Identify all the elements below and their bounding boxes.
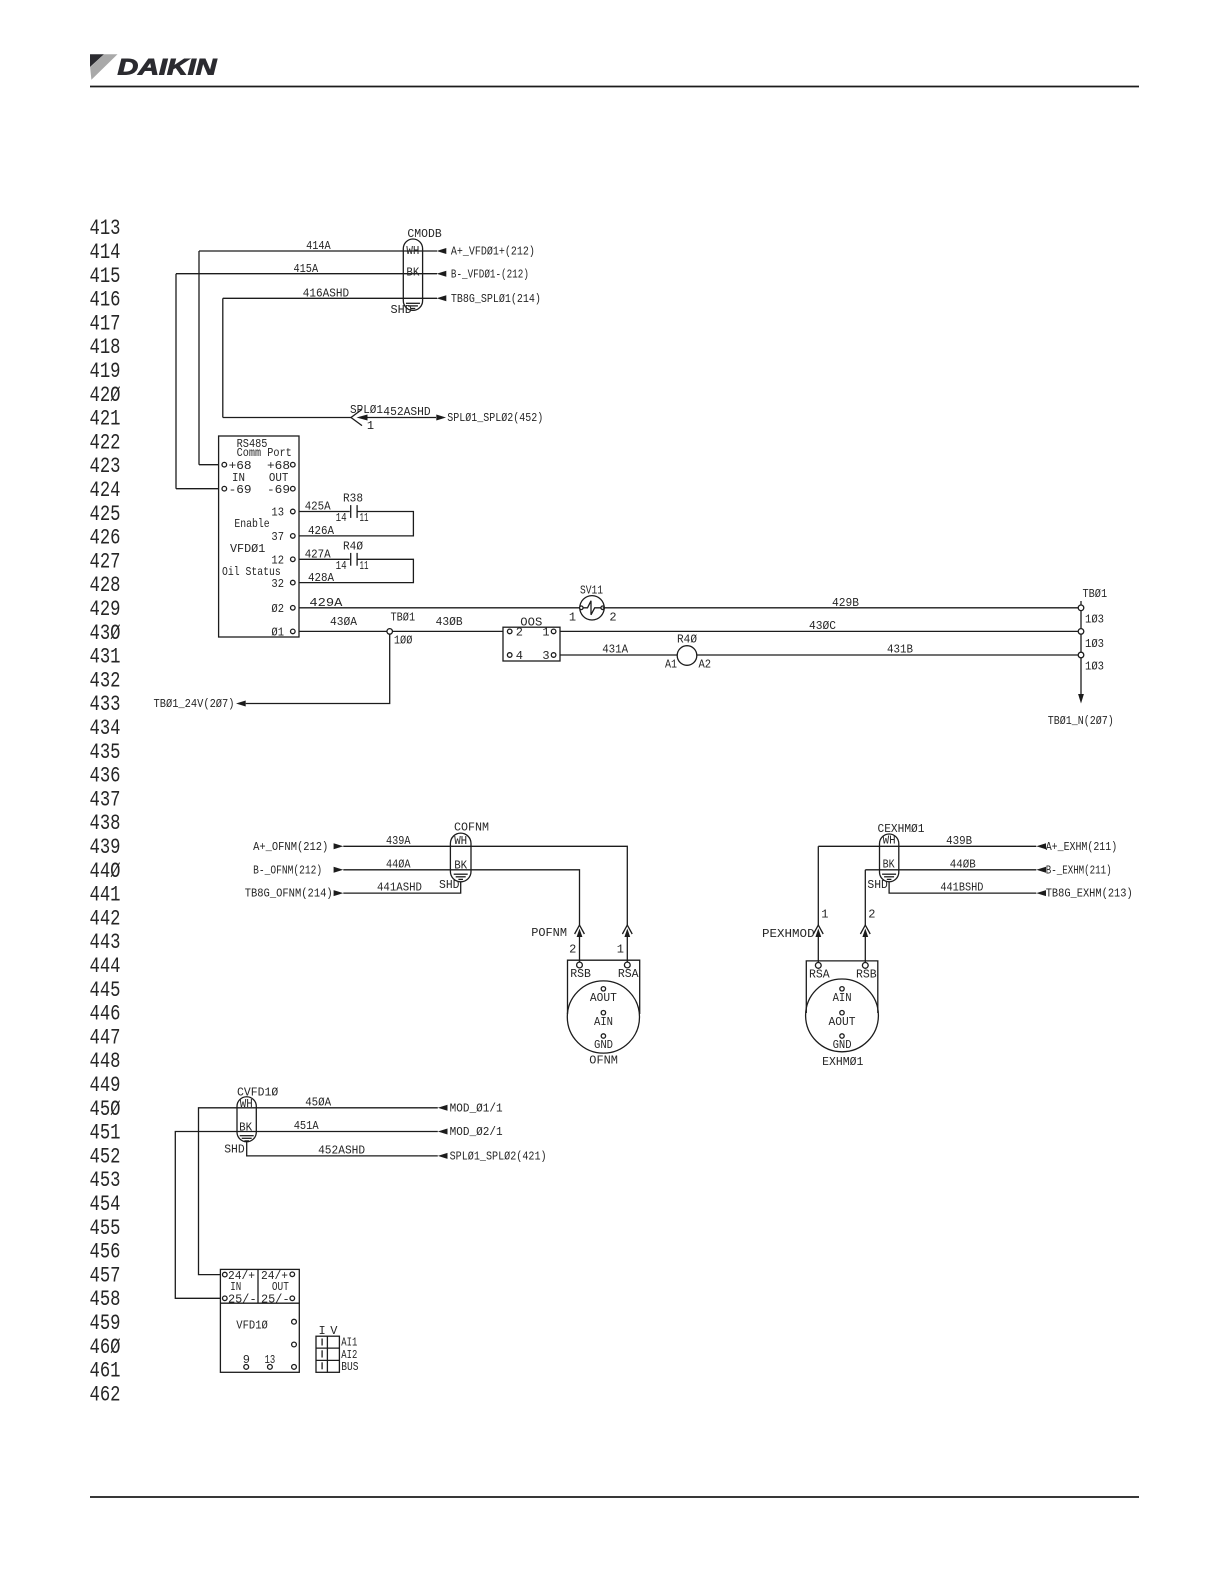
- svg-text:43ØC: 43ØC: [809, 619, 836, 633]
- svg-text:414A: 414A: [306, 239, 331, 253]
- svg-text:423: 423: [90, 454, 121, 479]
- contact R38: [351, 505, 357, 518]
- terminal -69 OUT: [291, 486, 296, 491]
- footer rule: [90, 1496, 1139, 1498]
- svg-text:1: 1: [367, 419, 374, 433]
- svg-text:422: 422: [90, 430, 121, 455]
- svg-text:454: 454: [90, 1192, 121, 1217]
- svg-text:441ASHD: 441ASHD: [377, 881, 422, 895]
- svg-text:441BSHD: 441BSHD: [940, 881, 983, 895]
- wire 431B: [697, 654, 1081, 656]
- terminal AOUT OFNM: [601, 987, 605, 991]
- svg-text:WH: WH: [454, 834, 467, 848]
- terminal 13 VFD01: [291, 509, 296, 514]
- connector receptacle SPL01: [351, 409, 362, 425]
- wire 441BSHD: [889, 882, 1036, 894]
- connector plug SPL01: [357, 415, 368, 421]
- terminal TB01 103b: [1078, 629, 1084, 635]
- svg-text:VFDØ1: VFDØ1: [230, 542, 265, 556]
- svg-text:458: 458: [90, 1287, 121, 1312]
- wire 451A: [175, 1132, 438, 1299]
- svg-text:46Ø: 46Ø: [90, 1335, 121, 1360]
- jumper table I/V: [316, 1336, 339, 1372]
- wire 431A: [560, 654, 677, 656]
- svg-text:SPLØ1_SPLØ2(421): SPLØ1_SPLØ2(421): [450, 1150, 547, 1164]
- svg-text:1: 1: [542, 626, 549, 640]
- wire 452ASHD right: [368, 417, 437, 419]
- svg-text:425A: 425A: [305, 500, 332, 514]
- svg-text:25/-: 25/-: [228, 1293, 257, 1307]
- svg-text:439: 439: [90, 835, 121, 860]
- svg-text:SHD: SHD: [224, 1143, 245, 1157]
- svg-text:-69: -69: [267, 483, 290, 497]
- svg-text:WH: WH: [406, 244, 419, 258]
- svg-text:A+_OFNM(212): A+_OFNM(212): [253, 840, 328, 854]
- svg-text:A1: A1: [665, 658, 677, 672]
- wire 440A: [343, 870, 579, 925]
- terminal VFD10 r1: [292, 1319, 297, 1324]
- terminal RSB OFNM: [577, 962, 583, 968]
- terminal 9 VFD10: [244, 1365, 249, 1370]
- svg-text:427: 427: [90, 549, 121, 574]
- wire 440B: [865, 869, 1036, 871]
- svg-text:1: 1: [569, 611, 576, 625]
- terminal OOS 3: [551, 653, 556, 658]
- svg-text:OOS: OOS: [520, 615, 542, 629]
- terminal +68 OUT: [291, 462, 296, 467]
- connector POFNM pin 2: [575, 925, 585, 937]
- device OFNM circle: [567, 981, 639, 1053]
- terminal 25/- OUT: [290, 1296, 295, 1301]
- svg-text:441: 441: [90, 883, 121, 908]
- shield CVFD10: [240, 1136, 254, 1141]
- svg-text:44ØA: 44ØA: [386, 857, 411, 871]
- svg-text:1ØØ: 1ØØ: [394, 633, 413, 647]
- arrow A+_EXHM: [1036, 843, 1046, 849]
- svg-text:2: 2: [609, 611, 616, 625]
- wire -69 in: [176, 488, 219, 490]
- svg-text:4: 4: [516, 649, 523, 663]
- svg-text:Ø2: Ø2: [271, 602, 284, 616]
- svg-text:EXHMØ1: EXHMØ1: [822, 1055, 863, 1069]
- svg-text:444: 444: [90, 954, 121, 979]
- svg-text:451A: 451A: [294, 1119, 320, 1133]
- terminal 01 VFD01: [291, 629, 296, 634]
- svg-text:428A: 428A: [308, 571, 335, 585]
- arrow TB8G_SPL01: [437, 295, 447, 301]
- svg-text:453: 453: [90, 1168, 121, 1193]
- svg-text:45Ø: 45Ø: [90, 1097, 121, 1122]
- svg-text:AIN: AIN: [833, 991, 852, 1005]
- VFD10 divider vertical: [257, 1269, 259, 1303]
- cable CMODB: [403, 239, 422, 310]
- svg-text:A2: A2: [699, 658, 712, 672]
- wire 426A loop: [299, 512, 413, 536]
- wire 415A: [176, 273, 437, 275]
- solenoid valve SV11: [580, 596, 605, 620]
- svg-text:R4Ø: R4Ø: [677, 633, 697, 647]
- terminal GND EXHM01: [840, 1034, 844, 1038]
- svg-text:44Ø: 44Ø: [90, 859, 121, 884]
- svg-text:2: 2: [569, 943, 576, 957]
- svg-text:RSA: RSA: [618, 967, 639, 981]
- svg-text:Ø1: Ø1: [271, 626, 284, 640]
- wire 429A: [299, 607, 581, 609]
- terminal 37 VFD01: [291, 534, 296, 539]
- wire PEXHMOD 1 drop: [817, 937, 819, 963]
- terminal AIN EXHM01: [840, 987, 844, 991]
- cable COFNM: [450, 833, 471, 882]
- terminal OOS 4: [507, 653, 512, 658]
- svg-text:-69: -69: [229, 483, 252, 497]
- svg-text:446: 446: [90, 1002, 121, 1027]
- wire feeder 414A vertical: [198, 251, 200, 465]
- svg-text:SHD: SHD: [439, 878, 460, 892]
- terminal 25/- IN: [223, 1296, 228, 1301]
- svg-text:45ØA: 45ØA: [305, 1095, 332, 1109]
- connector PEXHMOD pin 2: [860, 925, 870, 937]
- svg-text:SPLØ1: SPLØ1: [350, 403, 383, 417]
- arrow TB8G_EXHM: [1036, 890, 1046, 896]
- device EXHM01 circle: [806, 979, 879, 1052]
- svg-text:414: 414: [90, 240, 121, 265]
- svg-text:416: 416: [90, 288, 121, 313]
- svg-text:431A: 431A: [602, 643, 629, 657]
- terminal TB01 103a: [1078, 605, 1084, 611]
- wire feeder 415A vertical: [175, 274, 177, 489]
- svg-text:SHD: SHD: [867, 878, 888, 892]
- svg-text:WH: WH: [240, 1097, 253, 1111]
- svg-text:424: 424: [90, 478, 121, 503]
- svg-text:432: 432: [90, 668, 121, 693]
- arrow TB8G_OFNM: [334, 890, 344, 896]
- svg-text:A+_VFDØ1+(212): A+_VFDØ1+(212): [451, 245, 535, 259]
- terminal OOS 2: [507, 629, 512, 634]
- wire TB01 N drop: [1080, 658, 1082, 695]
- terminal VFD10 r3: [292, 1365, 297, 1370]
- terminal 02 VFD01: [291, 606, 296, 611]
- switch OOS box: [503, 627, 560, 661]
- jumper AI2 mark: [321, 1350, 323, 1357]
- svg-text:13: 13: [271, 506, 284, 520]
- jumper AI1 mark: [321, 1339, 323, 1346]
- arrow SPL01_SPL02(421): [438, 1153, 448, 1159]
- svg-text:433: 433: [90, 692, 121, 717]
- contact R40: [351, 553, 357, 566]
- svg-text:429: 429: [90, 597, 121, 622]
- device VFD10 box: [220, 1269, 299, 1372]
- svg-text:44ØB: 44ØB: [950, 857, 976, 871]
- wire 439A: [343, 846, 627, 925]
- relay coil R40: [677, 646, 697, 666]
- svg-text:447: 447: [90, 1025, 121, 1050]
- svg-text:AOUT: AOUT: [590, 991, 617, 1005]
- svg-text:WH: WH: [883, 834, 896, 848]
- svg-text:I: I: [318, 1324, 325, 1338]
- svg-text:429A: 429A: [309, 596, 343, 610]
- svg-text:SV11: SV11: [580, 584, 603, 598]
- svg-text:A+_EXHM(211): A+_EXHM(211): [1046, 840, 1118, 854]
- svg-text:421: 421: [90, 407, 121, 432]
- svg-text:42Ø: 42Ø: [90, 383, 121, 408]
- terminal AIN OFNM: [601, 1011, 605, 1015]
- svg-text:SPLØ1_SPLØ2(452): SPLØ1_SPLØ2(452): [447, 411, 543, 425]
- svg-text:439A: 439A: [386, 834, 411, 848]
- svg-text:3: 3: [542, 649, 549, 663]
- svg-text:415: 415: [90, 264, 121, 289]
- svg-text:B-_EXHM(211): B-_EXHM(211): [1046, 863, 1112, 877]
- terminal 24/+ IN: [223, 1272, 228, 1277]
- line number column 413-462: [90, 216, 121, 1407]
- svg-text:25/-: 25/-: [261, 1293, 290, 1307]
- svg-text:1Ø3: 1Ø3: [1085, 637, 1104, 651]
- svg-text:417: 417: [90, 311, 121, 336]
- wire 416ASHD: [223, 297, 437, 299]
- svg-text:B-_VFDØ1-(212): B-_VFDØ1-(212): [451, 267, 529, 281]
- svg-text:435: 435: [90, 740, 121, 765]
- svg-text:2: 2: [516, 626, 523, 640]
- terminal RSA EXHM01: [815, 963, 821, 969]
- svg-text:452: 452: [90, 1144, 121, 1169]
- wire TB01 24V drop: [246, 634, 390, 703]
- wire 439B drop: [817, 846, 819, 925]
- terminal strip TB01 vertical: [1080, 601, 1082, 655]
- terminal 12 VFD01: [291, 557, 296, 562]
- svg-text:TB8G_EXHM(213): TB8G_EXHM(213): [1046, 887, 1133, 901]
- svg-text:Comm Port: Comm Port: [237, 446, 292, 460]
- svg-text:DAIKIN: DAIKIN: [118, 55, 218, 80]
- svg-text:1Ø3: 1Ø3: [1085, 613, 1104, 627]
- arrow B-_EXHM: [1036, 867, 1046, 873]
- svg-text:415A: 415A: [294, 262, 319, 276]
- svg-text:426: 426: [90, 526, 121, 551]
- cable CEXHM01: [880, 834, 899, 882]
- svg-text:413: 413: [90, 216, 121, 241]
- svg-text:TBØ1_24V(2Ø7): TBØ1_24V(2Ø7): [154, 697, 235, 711]
- device EXHM01 box: [806, 961, 878, 1013]
- svg-text:426A: 426A: [308, 524, 335, 538]
- svg-text:461: 461: [90, 1359, 121, 1384]
- svg-text:448: 448: [90, 1049, 121, 1074]
- svg-text:451: 451: [90, 1121, 121, 1146]
- svg-text:TB8G_SPLØ1(214): TB8G_SPLØ1(214): [451, 292, 541, 306]
- wire PEXHMOD 2 drop: [864, 937, 866, 963]
- svg-text:434: 434: [90, 716, 121, 741]
- arrow MOD_01/1: [438, 1105, 448, 1111]
- svg-text:PEXHMOD: PEXHMOD: [762, 927, 815, 941]
- terminal -69 IN: [222, 486, 227, 491]
- svg-text:TBØ1: TBØ1: [391, 610, 416, 624]
- wire 439B: [818, 845, 1036, 847]
- arrow A+_OFNM: [334, 843, 344, 849]
- svg-text:BK: BK: [406, 266, 420, 280]
- svg-text:429B: 429B: [832, 596, 859, 610]
- wire +68 in: [199, 464, 219, 466]
- wire feeder 416ASHD vertical: [222, 298, 224, 417]
- terminal +68 IN: [222, 462, 227, 467]
- shield COFNM: [454, 874, 468, 879]
- node TB01 100: [387, 629, 393, 635]
- svg-text:BUS: BUS: [341, 1360, 358, 1374]
- svg-text:456: 456: [90, 1240, 121, 1265]
- svg-text:11: 11: [360, 559, 369, 573]
- svg-text:POFNM: POFNM: [531, 926, 567, 940]
- wire 414A: [199, 250, 437, 252]
- wire 440B drop: [864, 870, 866, 925]
- svg-text:37: 37: [271, 530, 284, 544]
- svg-text:AIN: AIN: [594, 1015, 613, 1029]
- arrow TB01_N down: [1078, 694, 1084, 704]
- svg-text:457: 457: [90, 1263, 121, 1288]
- svg-text:427A: 427A: [305, 548, 332, 562]
- svg-text:437: 437: [90, 787, 121, 812]
- svg-text:RSA: RSA: [809, 968, 830, 982]
- svg-text:43ØA: 43ØA: [330, 615, 358, 629]
- svg-text:436: 436: [90, 764, 121, 789]
- svg-text:R38: R38: [343, 492, 363, 506]
- svg-text:BK: BK: [454, 858, 468, 872]
- connector PEXHMOD pin 1: [813, 925, 823, 937]
- terminal 13 VFD10: [268, 1365, 273, 1370]
- svg-text:442: 442: [90, 906, 121, 931]
- svg-text:MOD_Ø2/1: MOD_Ø2/1: [450, 1125, 503, 1139]
- svg-text:419: 419: [90, 359, 121, 384]
- terminal GND OFNM: [601, 1034, 605, 1038]
- svg-text:CMODB: CMODB: [407, 227, 441, 241]
- VFD10 divider horizontal: [220, 1302, 299, 1304]
- svg-text:431B: 431B: [887, 643, 913, 657]
- header rule: [90, 86, 1139, 88]
- terminal 32 VFD01: [291, 580, 296, 585]
- connector POFNM pin 1: [622, 925, 632, 937]
- svg-text:1: 1: [821, 908, 828, 922]
- terminal 24/+ OUT: [290, 1272, 295, 1277]
- svg-text:43ØB: 43ØB: [436, 615, 463, 629]
- terminal AOUT EXHM01: [840, 1011, 844, 1015]
- svg-text:11: 11: [360, 511, 369, 525]
- svg-text:R4Ø: R4Ø: [343, 539, 363, 553]
- svg-text:BK: BK: [239, 1121, 253, 1135]
- wire 452ASHD left: [223, 417, 351, 419]
- svg-text:14: 14: [336, 511, 347, 525]
- arrow SPL01_SPL02: [436, 415, 446, 421]
- svg-text:TBØ1_N(2Ø7): TBØ1_N(2Ø7): [1048, 714, 1114, 728]
- Daikin logo mark: [90, 54, 118, 79]
- svg-text:418: 418: [90, 335, 121, 360]
- arrow B-_VFD01-: [437, 271, 447, 277]
- svg-text:COFNM: COFNM: [454, 821, 489, 835]
- svg-text:Enable: Enable: [234, 517, 269, 531]
- svg-text:1Ø3: 1Ø3: [1085, 659, 1104, 673]
- svg-text:2: 2: [868, 908, 875, 922]
- svg-text:1: 1: [617, 943, 624, 957]
- svg-text:RSB: RSB: [570, 967, 591, 981]
- wire 429B: [603, 607, 1081, 609]
- svg-text:B-_OFNM(212): B-_OFNM(212): [253, 863, 322, 877]
- terminal RSB EXHM01: [862, 963, 868, 969]
- svg-text:OFNM: OFNM: [589, 1054, 618, 1068]
- svg-text:425: 425: [90, 502, 121, 527]
- wire 452ASHD bottom: [247, 1142, 438, 1156]
- wire 450A: [199, 1108, 438, 1275]
- wire 427A: [299, 558, 350, 560]
- svg-text:VFD1Ø: VFD1Ø: [236, 1319, 267, 1333]
- wire POFNM 1 drop: [626, 937, 628, 962]
- arrow TB01_24V: [236, 701, 246, 707]
- wire 441ASHD: [343, 882, 460, 894]
- terminal VFD10 r2: [292, 1342, 297, 1347]
- svg-text:TB8G_OFNM(214): TB8G_OFNM(214): [245, 887, 333, 901]
- svg-text:RSB: RSB: [856, 968, 877, 982]
- svg-text:AOUT: AOUT: [829, 1015, 856, 1029]
- wire 428A loop: [299, 559, 413, 582]
- svg-text:462: 462: [90, 1382, 121, 1407]
- svg-text:455: 455: [90, 1216, 121, 1241]
- svg-text:14: 14: [336, 559, 347, 573]
- svg-text:452ASHD: 452ASHD: [318, 1144, 365, 1158]
- shield CMODB: [406, 303, 420, 308]
- svg-text:449: 449: [90, 1073, 121, 1098]
- svg-text:V: V: [330, 1324, 338, 1338]
- svg-text:431: 431: [90, 645, 121, 670]
- jumper BUS mark: [321, 1362, 323, 1369]
- svg-text:SHD: SHD: [391, 303, 412, 317]
- wire 430A: [299, 630, 503, 632]
- shield CEXHM01: [882, 874, 896, 879]
- terminal OOS 1: [551, 629, 556, 634]
- svg-text:459: 459: [90, 1311, 121, 1336]
- svg-text:416ASHD: 416ASHD: [303, 287, 349, 301]
- wire POFNM 2 drop: [579, 937, 581, 962]
- svg-text:43Ø: 43Ø: [90, 621, 121, 646]
- svg-text:439B: 439B: [946, 834, 972, 848]
- svg-text:32: 32: [271, 577, 284, 591]
- arrow MOD_02/1: [438, 1129, 448, 1135]
- svg-text:GND: GND: [833, 1038, 852, 1052]
- svg-text:428: 428: [90, 573, 121, 598]
- svg-text:MOD_Ø1/1: MOD_Ø1/1: [450, 1101, 503, 1115]
- terminal TB01 103c: [1078, 652, 1084, 658]
- svg-text:TBØ1: TBØ1: [1083, 587, 1108, 601]
- device OFNM box: [568, 960, 640, 1014]
- svg-text:GND: GND: [594, 1038, 613, 1052]
- svg-text:452ASHD: 452ASHD: [383, 405, 430, 419]
- arrow B-_OFNM: [334, 867, 344, 873]
- svg-text:445: 445: [90, 978, 121, 1003]
- arrow A+_VFD01+: [437, 248, 447, 254]
- terminal RSA OFNM: [624, 962, 630, 968]
- wire 425A: [299, 511, 350, 513]
- wire 430C: [560, 630, 1081, 632]
- cable CVFD10: [237, 1097, 256, 1142]
- svg-text:438: 438: [90, 811, 121, 836]
- svg-text:443: 443: [90, 930, 121, 955]
- device VFD01 box: [219, 436, 299, 637]
- svg-text:12: 12: [271, 554, 284, 568]
